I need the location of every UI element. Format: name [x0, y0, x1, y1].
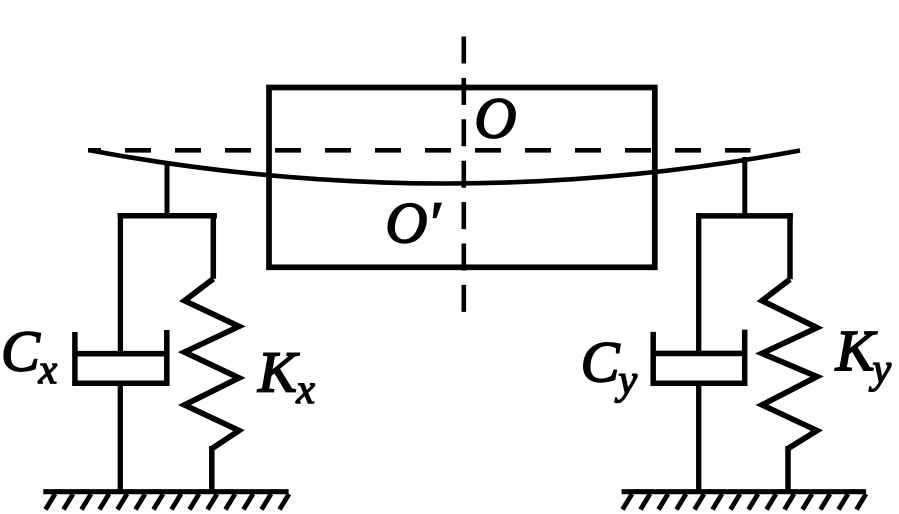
right stem from curve: [742, 157, 747, 218]
spring Ky upper stem: [787, 213, 793, 279]
damper Cx lower rod: [118, 383, 123, 492]
damper Cy lower rod: [696, 383, 701, 492]
node O' label: [388, 204, 426, 243]
damper Cx label: [4, 332, 40, 371]
right ground line: [622, 489, 867, 494]
damper Cx piston rod: [118, 213, 123, 356]
left ground hatching: [46, 494, 290, 510]
vertical dashed centerline: [461, 37, 466, 313]
right ground hatching: [623, 494, 867, 510]
damper Cy piston rod: [696, 213, 701, 356]
spring Ky label: [835, 332, 877, 370]
horizontal dashed axis line: [88, 148, 751, 153]
spring Kx upper stem: [211, 213, 217, 279]
prime mark of O': [434, 204, 441, 218]
damper Cx cylinder cup: [75, 330, 167, 383]
left top bar: [118, 213, 217, 219]
mass block rectangle: [269, 88, 655, 268]
left ground line: [43, 489, 288, 494]
spring Ky zigzag: [762, 279, 817, 448]
left stem from curve: [165, 165, 170, 218]
deflected shaft curve: [91, 151, 800, 184]
spring Ky lower stem: [785, 446, 791, 492]
damper Cy label: [584, 343, 620, 382]
spring Kx zigzag: [185, 279, 240, 449]
damper Cx piston plate: [75, 351, 167, 357]
damper Cy piston plate: [653, 351, 744, 357]
spring Kx lower stem: [209, 446, 215, 492]
right top bar: [700, 213, 793, 219]
damper Cy cylinder cup: [653, 330, 745, 384]
node O label: [477, 99, 515, 138]
spring Kx label: [257, 353, 299, 391]
